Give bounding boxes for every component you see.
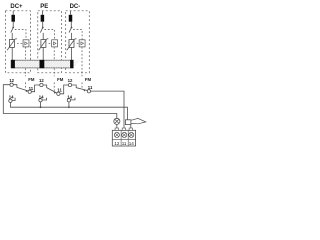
wire series link K1-11 to K2-12 [31,85,39,92]
wire U2 varistor to busbar [42,47,44,60]
fuse thermal-disconnect U2 [41,15,45,22]
svg-text:12: 12 [68,78,73,83]
screw terminal clamp tab 14 [129,128,132,130]
svg-text:12: 12 [114,141,120,146]
module U1 dashed enclosure [5,11,30,73]
screw terminal clamp tab 11 [122,128,125,130]
screw terminal clamp tab 12 [115,128,118,130]
mechanical link dashes U1 [15,30,26,40]
wire U1 varistor to busbar [11,47,13,60]
svg-text:FM: FM [28,77,35,82]
wire 12-rail from contact K1 [3,85,117,119]
status indicator box U2 [52,40,58,47]
wire U3 fuse to switch [70,22,72,27]
mechanical link dashes U3 [73,30,82,40]
wire U2 top lead [41,11,43,15]
varistor U3 [67,39,77,51]
status indicator box U3 [79,40,85,47]
FM dot on blade contact K2 [54,92,56,94]
mechanical link dashes U2 [44,30,54,40]
disconnect switch U1 [11,27,14,33]
open contact stub 14 K2 [42,98,46,100]
wire U1 top lead [12,11,14,15]
wire lamp to terminal [116,124,118,132]
FM dot on blade contact K1 [26,90,28,92]
wire 14-rail [10,102,127,119]
screw terminal 11 [122,132,127,137]
horn signal device [125,118,145,124]
varistor link dash U2 [49,42,51,44]
varistor link dash U3 [77,42,79,44]
wire U3 switch to varistor [70,33,72,40]
wire 14 drop K3 [68,102,70,107]
varistor U2 [39,39,49,51]
svg-text:12: 12 [9,78,14,83]
svg-text:11: 11 [88,85,93,90]
wire 14 drop K2 [40,102,42,107]
busbar terminal block middle [40,60,45,68]
junction dot 14 K3 [68,106,70,108]
terminal 12 contact K1 [10,83,13,86]
wire U3 top lead [70,11,72,15]
wire horn to terminal [130,125,132,133]
screw terminal 12 [114,132,119,137]
svg-text:FM: FM [85,77,92,82]
terminal 14 contact K1 [9,99,12,102]
varistor link dash U1 [17,42,22,44]
FM dot on blade contact K3 [84,90,86,92]
switch blade contact K1 [13,85,28,91]
busbar terminal block right [70,60,73,68]
switch blade contact K2 [43,85,57,93]
terminal block divider 2 [127,130,129,146]
PE busbar hatched [11,60,79,68]
fuse thermal-disconnect U1 [11,15,15,22]
svg-text:14: 14 [9,94,14,99]
junction dot 14 K2 [40,106,42,108]
terminal block outline [112,130,135,146]
terminal block label divider [112,138,135,140]
module U2 dashed enclosure [38,11,62,73]
wire 11 to terminal block [91,91,125,132]
wire U2 fuse to switch [42,22,44,27]
terminal 12 contact K2 [40,83,43,86]
busbar terminal block left [11,60,15,68]
switch blade contact K3 [72,85,88,91]
wire series link K2-11 to K3-12 [60,85,68,94]
terminal 11 contact K3 [87,90,90,93]
svg-text:DC-: DC- [70,4,81,10]
terminal block divider 1 [120,130,122,146]
FM link dashes contact K3 [81,47,83,76]
disconnect switch U3 [69,27,72,33]
open contact stub 14 K3 [71,98,75,100]
disconnect switch U2 [40,27,43,33]
wire U2 switch to varistor [42,33,44,40]
module U3 dashed enclosure [66,11,90,73]
varistor U1 [7,39,17,51]
terminal 12 contact K3 [68,83,71,86]
FM link dashes contact K1 [24,47,26,60]
svg-text:14: 14 [129,141,135,146]
indicator lamp [114,118,120,124]
svg-text:PE: PE [40,4,48,10]
open contact stub 14 K1 [12,98,15,101]
svg-text:11: 11 [122,141,127,146]
fuse thermal-disconnect U3 [69,15,73,22]
svg-text:DC+: DC+ [10,4,23,10]
wire U1 switch to varistor [11,33,13,40]
FM link dashes contact K2 [53,47,55,60]
terminal 11 contact K2 [57,92,60,95]
svg-text:12: 12 [39,78,44,83]
status indicator box U1 [23,40,29,47]
terminal 11 contact K1 [28,90,31,93]
wire U1 fuse to switch [12,22,14,27]
wire U3 varistor to busbar [70,47,72,60]
svg-text:FM: FM [57,77,64,82]
screw terminal 14 [129,132,134,137]
terminal 14 contact K3 [67,99,70,102]
terminal 14 contact K2 [39,99,42,102]
